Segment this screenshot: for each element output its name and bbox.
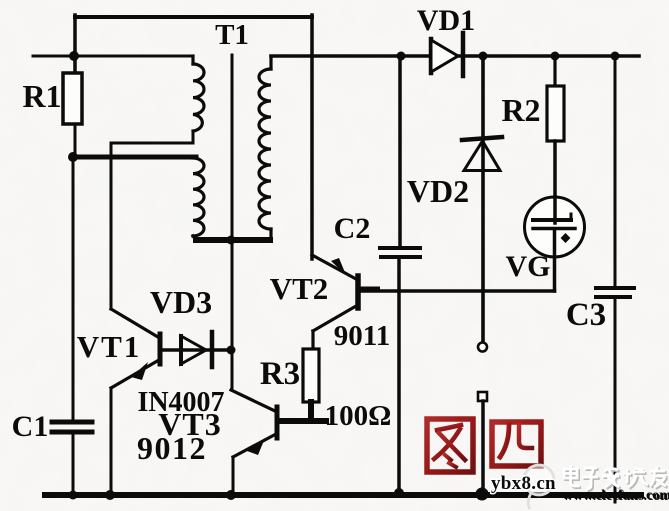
svg-text:VT1: VT1: [77, 329, 142, 364]
svg-text:R3: R3: [260, 356, 300, 392]
svg-text:9012: 9012: [137, 430, 207, 466]
svg-text:R2: R2: [501, 92, 540, 128]
svg-text:C1: C1: [12, 410, 49, 443]
svg-text:C3: C3: [566, 297, 606, 333]
svg-text:VT2: VT2: [270, 271, 329, 306]
svg-text:9011: 9011: [334, 320, 390, 352]
svg-text:R1: R1: [22, 78, 61, 114]
svg-text:100Ω: 100Ω: [325, 400, 392, 432]
svg-text:VD3: VD3: [150, 284, 212, 320]
svg-text:VD1: VD1: [417, 4, 475, 37]
svg-text:ybx8.cn: ybx8.cn: [491, 473, 556, 494]
svg-text:VG: VG: [506, 250, 551, 283]
svg-text:T1: T1: [215, 19, 249, 51]
svg-text:VD2: VD2: [407, 173, 469, 209]
svg-text:www.elecfans.com: www.elecfans.com: [562, 488, 669, 503]
svg-text:C2: C2: [334, 212, 371, 245]
